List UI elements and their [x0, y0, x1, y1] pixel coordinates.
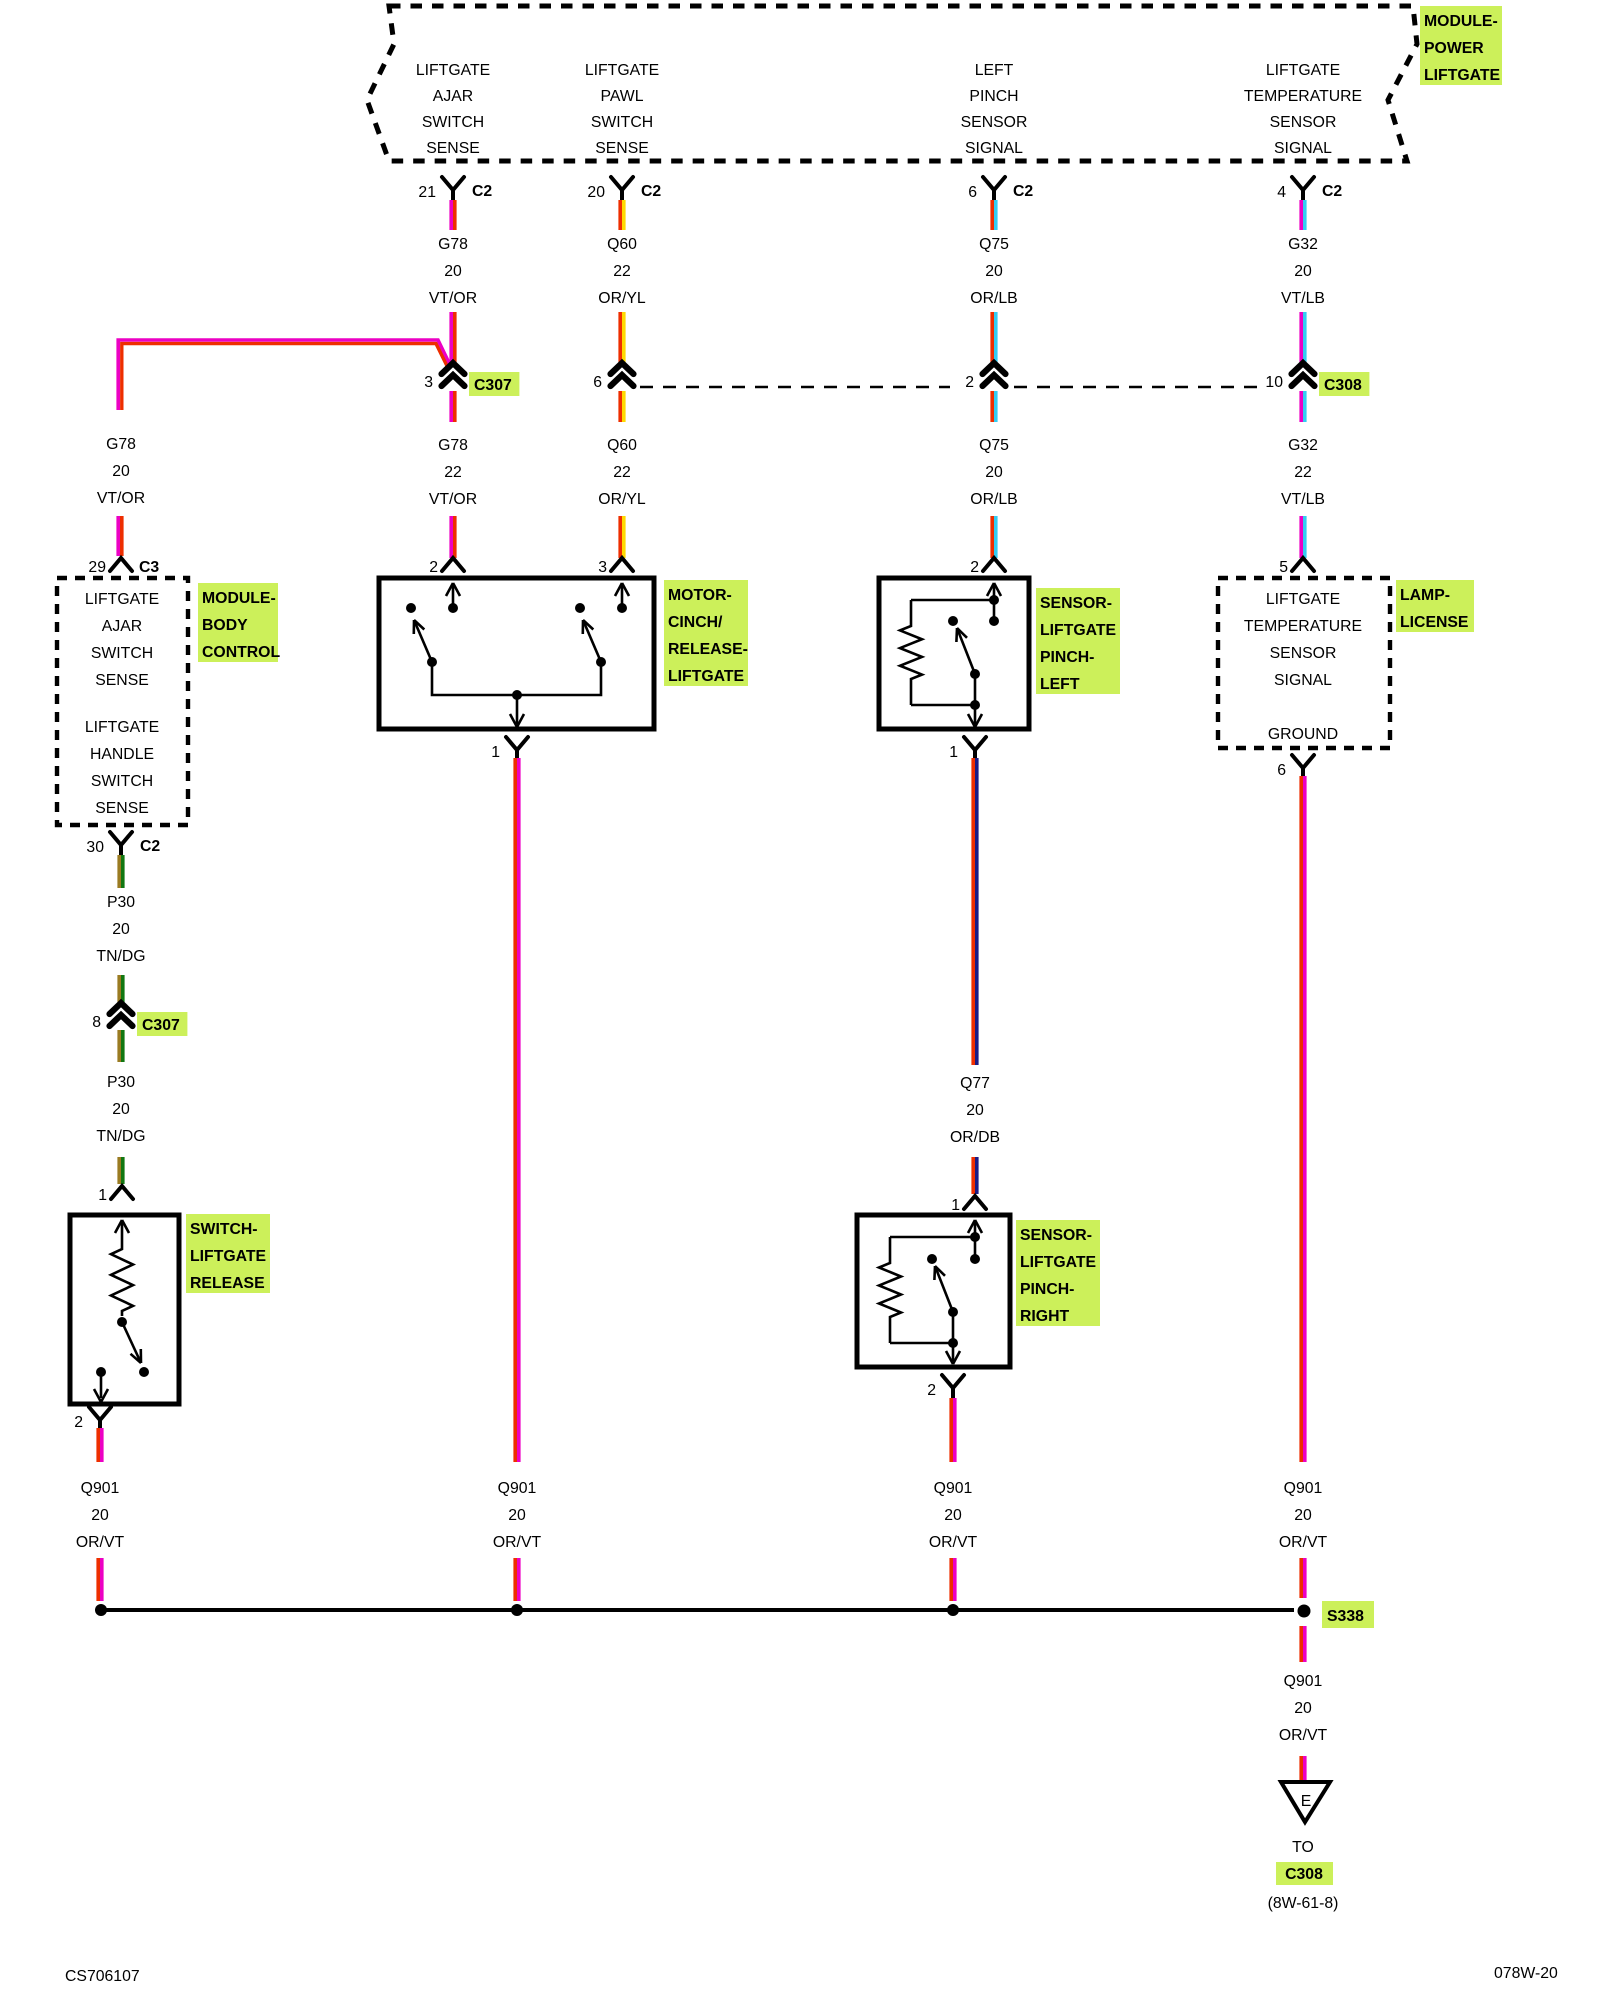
- connector C2 pin 30: [110, 832, 132, 855]
- junction col2: [511, 1604, 523, 1616]
- connector C2 pin 4: [1292, 177, 1314, 200]
- svg-text:SIGNAL: SIGNAL: [1274, 140, 1332, 157]
- svg-text:VT/OR: VT/OR: [429, 290, 477, 307]
- wire Q901 20 OR/VT below lamp: [1299, 776, 1303, 1462]
- wire G32 22 VT/LB below C308: [1299, 391, 1303, 422]
- svg-text:HANDLE: HANDLE: [90, 746, 154, 763]
- svg-text:P30: P30: [107, 1074, 135, 1091]
- svg-text:PINCH: PINCH: [969, 88, 1018, 105]
- svg-text:G32: G32: [1288, 236, 1318, 253]
- svg-text:2: 2: [970, 559, 979, 576]
- svg-text:(8W-61-8): (8W-61-8): [1268, 1895, 1339, 1912]
- svg-text:6: 6: [1277, 762, 1286, 779]
- svg-text:22: 22: [1294, 464, 1312, 481]
- svg-text:20: 20: [508, 1507, 526, 1524]
- svg-text:CONTROL: CONTROL: [202, 644, 280, 661]
- wire Q60 22 OR/YL below C308: [618, 391, 622, 422]
- svg-text:Q60: Q60: [607, 236, 637, 253]
- wire VT/OR into motor pin 2: [449, 516, 453, 558]
- svg-text:Q901: Q901: [934, 1480, 973, 1497]
- wire Q60 22 OR/YL stub: [618, 200, 622, 230]
- sensor pinch-right internals (resistor + switch): [968, 1220, 982, 1233]
- svg-text:20: 20: [966, 1102, 984, 1119]
- switch internals (release switch): [115, 1220, 129, 1233]
- svg-text:20: 20: [1294, 263, 1312, 280]
- svg-text:Q901: Q901: [1284, 1673, 1323, 1690]
- svg-text:C2: C2: [1322, 183, 1342, 200]
- wire VT/OR into C3 pin 29: [116, 516, 120, 556]
- sensor pinch-left internals (resistor + switch): [987, 583, 1001, 596]
- wire G32 20 VT/LB stub: [1299, 200, 1303, 230]
- svg-text:OR/DB: OR/DB: [950, 1129, 1000, 1146]
- wire VT/LB into lamp pin 5: [1299, 516, 1303, 558]
- svg-text:VT/LB: VT/LB: [1281, 290, 1325, 307]
- wire Q77 20 OR/DB: [971, 758, 975, 1065]
- junction splice S338: [1298, 1605, 1311, 1618]
- svg-text:21: 21: [418, 184, 436, 201]
- svg-text:20: 20: [91, 1507, 109, 1524]
- junction col1: [95, 1604, 107, 1616]
- connector C2 pin 6: [983, 177, 1005, 200]
- svg-text:LIFTGATE: LIFTGATE: [1020, 1254, 1096, 1271]
- wire Q75 20 OR/LB stub: [990, 200, 994, 230]
- connector C3 pin 29: [110, 558, 132, 571]
- svg-text:LIFTGATE: LIFTGATE: [416, 62, 490, 79]
- wire OR/LB into pinch-left pin 2: [990, 516, 994, 558]
- svg-text:G78: G78: [106, 436, 136, 453]
- svg-text:C3: C3: [139, 559, 159, 576]
- svg-text:5: 5: [1279, 559, 1288, 576]
- svg-text:Q901: Q901: [81, 1480, 120, 1497]
- svg-text:2: 2: [965, 374, 974, 391]
- svg-text:C2: C2: [1013, 183, 1033, 200]
- svg-text:20: 20: [985, 464, 1003, 481]
- label MODULE-POWER LIFTGATE: [1420, 6, 1502, 85]
- module BODY CONTROL (dashed outline): [57, 578, 188, 825]
- wire P30 20 TN/DG stub: [117, 855, 121, 888]
- svg-text:MOTOR-: MOTOR-: [668, 587, 732, 604]
- label MOTOR-CINCH/RELEASE-LIFTGATE: [664, 580, 748, 686]
- svg-text:P30: P30: [107, 894, 135, 911]
- wire Q901 20 OR/VT below motor: [513, 758, 517, 1462]
- svg-text:OR/VT: OR/VT: [493, 1534, 542, 1551]
- svg-text:BODY: BODY: [202, 617, 248, 634]
- label SENSOR-LIFTGATE PINCH-LEFT: [1036, 588, 1120, 694]
- svg-text:OR/LB: OR/LB: [970, 290, 1017, 307]
- svg-text:20: 20: [112, 921, 130, 938]
- connector C2 pin 21: [442, 177, 464, 200]
- svg-text:POWER: POWER: [1424, 40, 1484, 57]
- svg-text:Q75: Q75: [979, 437, 1009, 454]
- svg-text:GROUND: GROUND: [1268, 726, 1338, 743]
- svg-text:1: 1: [98, 1187, 107, 1204]
- sensor pinch-left pin 1: [964, 737, 986, 760]
- wire P30 TN/DG below C307: [117, 1030, 121, 1062]
- svg-text:C2: C2: [140, 838, 160, 855]
- svg-text:PAWL: PAWL: [600, 88, 643, 105]
- svg-text:22: 22: [613, 464, 631, 481]
- svg-text:20: 20: [112, 1101, 130, 1118]
- svg-text:TN/DG: TN/DG: [96, 1128, 145, 1145]
- svg-text:LIFTGATE: LIFTGATE: [1040, 622, 1116, 639]
- svg-text:22: 22: [444, 464, 462, 481]
- svg-text:C2: C2: [641, 183, 661, 200]
- svg-text:SWITCH: SWITCH: [591, 114, 653, 131]
- svg-text:VT/OR: VT/OR: [97, 490, 145, 507]
- svg-text:8: 8: [92, 1014, 101, 1031]
- svg-text:22: 22: [613, 263, 631, 280]
- inline connector C307 pin 3: [442, 363, 465, 374]
- wire G32 VT/LB to C308: [1299, 312, 1303, 366]
- svg-text:SENSOR: SENSOR: [961, 114, 1028, 131]
- svg-text:SENSE: SENSE: [595, 140, 649, 157]
- svg-text:20: 20: [985, 263, 1003, 280]
- svg-text:G78: G78: [438, 437, 468, 454]
- svg-text:VT/LB: VT/LB: [1281, 491, 1325, 508]
- wire G78 22 VT/OR below C307: [449, 391, 453, 422]
- sensor pinch-right pin 2: [942, 1375, 964, 1398]
- sensor pinch-left pin 2: [983, 558, 1005, 571]
- wire Q77 OR/DB into pinch-right: [971, 1157, 975, 1194]
- svg-text:078W-20: 078W-20: [1494, 1965, 1558, 1982]
- svg-text:20: 20: [444, 263, 462, 280]
- connector plane dashed line C308: [640, 386, 1258, 389]
- svg-text:RELEASE-: RELEASE-: [668, 641, 748, 658]
- svg-text:OR/VT: OR/VT: [1279, 1534, 1328, 1551]
- svg-text:LIFTGATE: LIFTGATE: [585, 62, 659, 79]
- svg-text:SENSOR: SENSOR: [1270, 114, 1337, 131]
- svg-text:1: 1: [491, 744, 500, 761]
- svg-text:SIGNAL: SIGNAL: [1274, 672, 1332, 689]
- lamp-license pin 5: [1292, 558, 1314, 571]
- wire Q901 OR/VT to splice col4: [1299, 1558, 1303, 1598]
- svg-text:OR/YL: OR/YL: [598, 491, 646, 508]
- sensor pinch-right pin 1: [964, 1196, 986, 1209]
- svg-text:G78: G78: [438, 236, 468, 253]
- svg-text:SIGNAL: SIGNAL: [965, 140, 1023, 157]
- motor internals (two switches to common): [446, 583, 460, 596]
- svg-text:TEMPERATURE: TEMPERATURE: [1244, 618, 1362, 635]
- svg-text:E: E: [1301, 1793, 1312, 1810]
- svg-text:Q901: Q901: [1284, 1480, 1323, 1497]
- svg-text:LIFTGATE: LIFTGATE: [85, 719, 159, 736]
- inline connector C307 pin 8: [110, 1003, 133, 1014]
- inline connector C308 pin 2: [983, 363, 1006, 374]
- svg-text:20: 20: [1294, 1507, 1312, 1524]
- connector C2 pin 20: [611, 177, 633, 200]
- svg-text:C307: C307: [142, 1017, 180, 1034]
- svg-text:PINCH-: PINCH-: [1040, 649, 1094, 666]
- svg-text:C308: C308: [1285, 1866, 1323, 1883]
- wire G78 VT/OR to C307: [449, 312, 453, 366]
- svg-text:LEFT: LEFT: [975, 62, 1014, 79]
- svg-text:MODULE-: MODULE-: [202, 590, 276, 607]
- wire Q901 OR/VT to splice col3: [949, 1558, 953, 1601]
- lamp LAMP-LICENSE (dashed outline): [1218, 578, 1390, 748]
- wire TN/DG into release switch pin 1: [117, 1157, 121, 1184]
- motor pin 1: [506, 737, 528, 760]
- release switch pin 2: [89, 1407, 111, 1430]
- svg-text:2: 2: [74, 1414, 83, 1431]
- svg-text:AJAR: AJAR: [102, 618, 142, 635]
- svg-text:SWITCH: SWITCH: [91, 645, 153, 662]
- svg-text:LICENSE: LICENSE: [1400, 614, 1468, 631]
- svg-text:LIFTGATE: LIFTGATE: [1266, 62, 1340, 79]
- label MODULE-BODY CONTROL: [198, 583, 278, 662]
- wire G78 VT/OR branch to body control module: [118, 340, 450, 410]
- wire Q901 OR/VT below splice: [1299, 1626, 1303, 1662]
- svg-text:LAMP-: LAMP-: [1400, 587, 1450, 604]
- svg-text:3: 3: [598, 559, 607, 576]
- svg-text:2: 2: [429, 559, 438, 576]
- switch SWITCH-LIFTGATE RELEASE (outline): [70, 1215, 179, 1404]
- svg-text:C307: C307: [474, 377, 512, 394]
- switch liftgate release pin 1: [111, 1186, 133, 1199]
- svg-text:OR/LB: OR/LB: [970, 491, 1017, 508]
- wire Q901 OR/VT below release switch: [96, 1428, 100, 1462]
- svg-text:30: 30: [86, 839, 104, 856]
- svg-text:SENSE: SENSE: [95, 672, 149, 689]
- svg-text:20: 20: [112, 463, 130, 480]
- svg-text:VT/OR: VT/OR: [429, 491, 477, 508]
- svg-text:SENSOR: SENSOR: [1270, 645, 1337, 662]
- svg-text:LEFT: LEFT: [1040, 676, 1080, 693]
- junction col3: [947, 1604, 959, 1616]
- svg-text:SENSE: SENSE: [426, 140, 480, 157]
- wire Q75 20 OR/LB below C308: [990, 391, 994, 422]
- svg-text:LIFTGATE: LIFTGATE: [1424, 67, 1500, 84]
- svg-text:Q75: Q75: [979, 236, 1009, 253]
- svg-text:20: 20: [587, 184, 605, 201]
- svg-text:29: 29: [88, 559, 106, 576]
- wire OR/YL into motor pin 3: [618, 516, 622, 558]
- svg-text:SENSOR-: SENSOR-: [1040, 595, 1112, 612]
- ground symbol E: [1281, 1782, 1330, 1822]
- svg-text:G32: G32: [1288, 437, 1318, 454]
- svg-text:RIGHT: RIGHT: [1020, 1308, 1069, 1325]
- svg-text:TO: TO: [1292, 1839, 1314, 1856]
- svg-text:Q77: Q77: [960, 1075, 990, 1092]
- svg-text:Q901: Q901: [498, 1480, 537, 1497]
- svg-text:OR/VT: OR/VT: [929, 1534, 978, 1551]
- sensor SENSOR-LIFTGATE PINCH-LEFT (outline): [879, 578, 1029, 729]
- svg-text:C2: C2: [472, 183, 492, 200]
- wire G78 20 VT/OR stub: [449, 200, 453, 230]
- svg-text:TN/DG: TN/DG: [96, 948, 145, 965]
- svg-text:6: 6: [968, 184, 977, 201]
- label LAMP-LICENSE: [1396, 580, 1474, 632]
- svg-text:1: 1: [949, 744, 958, 761]
- wire Q75 OR/LB to C308: [990, 312, 994, 366]
- svg-text:SENSE: SENSE: [95, 800, 149, 817]
- svg-text:CINCH/: CINCH/: [668, 614, 723, 631]
- svg-text:OR/VT: OR/VT: [76, 1534, 125, 1551]
- wire Q901 OR/VT below pinch-right: [949, 1398, 953, 1462]
- svg-text:Q60: Q60: [607, 437, 637, 454]
- svg-text:CS706107: CS706107: [65, 1968, 140, 1985]
- motor pin 2: [442, 558, 464, 571]
- svg-text:LIFTGATE: LIFTGATE: [1266, 591, 1340, 608]
- svg-text:10: 10: [1265, 374, 1283, 391]
- svg-text:S338: S338: [1327, 1608, 1364, 1625]
- svg-text:C308: C308: [1324, 377, 1362, 394]
- svg-text:1: 1: [951, 1197, 960, 1214]
- lamp-license pin 6: [1292, 755, 1314, 778]
- label SWITCH-LIFTGATE RELEASE: [186, 1214, 270, 1293]
- wire Q901 OR/VT to splice col1: [96, 1558, 100, 1601]
- svg-text:LIFTGATE: LIFTGATE: [668, 668, 744, 685]
- svg-text:3: 3: [424, 374, 433, 391]
- svg-text:SWITCH-: SWITCH-: [190, 1221, 258, 1238]
- svg-text:OR/YL: OR/YL: [598, 290, 646, 307]
- sensor SENSOR-LIFTGATE PINCH-RIGHT (outline): [857, 1215, 1010, 1367]
- svg-text:LIFTGATE: LIFTGATE: [190, 1248, 266, 1265]
- svg-text:MODULE-: MODULE-: [1424, 13, 1498, 30]
- svg-text:4: 4: [1277, 184, 1286, 201]
- svg-text:20: 20: [1294, 1700, 1312, 1717]
- motor pin 3: [611, 558, 633, 571]
- wire Q901 OR/VT to splice col2: [513, 1558, 517, 1601]
- wire Q60 OR/YL to C308: [618, 312, 622, 366]
- module connector block MODULE-POWER LIFTGATE (dashed outline): [367, 6, 1417, 161]
- svg-text:2: 2: [927, 1382, 936, 1399]
- svg-text:OR/VT: OR/VT: [1279, 1727, 1328, 1744]
- inline connector C308 pin 6: [611, 363, 634, 374]
- motor MOTOR-CINCH/RELEASE-LIFTGATE (outline): [379, 578, 654, 729]
- svg-text:AJAR: AJAR: [433, 88, 473, 105]
- label SENSOR-LIFTGATE PINCH-RIGHT: [1016, 1220, 1100, 1326]
- svg-text:TEMPERATURE: TEMPERATURE: [1244, 88, 1362, 105]
- svg-text:SWITCH: SWITCH: [91, 773, 153, 790]
- svg-text:SENSOR-: SENSOR-: [1020, 1227, 1092, 1244]
- splice bus wire S338: [101, 1608, 1294, 1612]
- svg-text:SWITCH: SWITCH: [422, 114, 484, 131]
- svg-text:6: 6: [593, 374, 602, 391]
- wire Q901 OR/VT to ground symbol: [1299, 1756, 1303, 1782]
- inline connector C308 pin 10: [1292, 363, 1315, 374]
- svg-text:RELEASE: RELEASE: [190, 1275, 265, 1292]
- svg-text:20: 20: [944, 1507, 962, 1524]
- wire P30 TN/DG to C307: [117, 975, 121, 1006]
- svg-text:LIFTGATE: LIFTGATE: [85, 591, 159, 608]
- svg-text:PINCH-: PINCH-: [1020, 1281, 1074, 1298]
